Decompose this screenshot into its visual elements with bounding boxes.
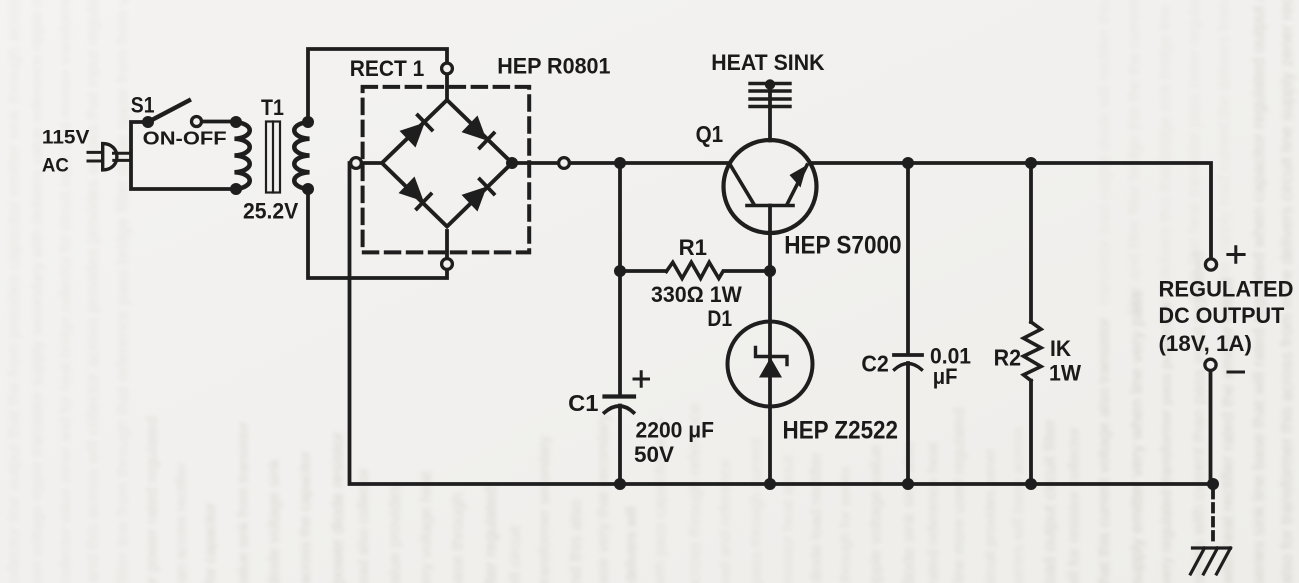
svg-text:C2: C2	[861, 350, 888, 376]
svg-text:330Ω 1W: 330Ω 1W	[651, 282, 742, 307]
svg-text:HEP R0801: HEP R0801	[497, 53, 610, 78]
svg-text:D1: D1	[707, 306, 732, 331]
svg-text:Q1: Q1	[696, 121, 724, 147]
svg-text:IK: IK	[1050, 336, 1071, 361]
svg-text:25.2V: 25.2V	[243, 199, 299, 224]
svg-text:50V: 50V	[634, 442, 674, 467]
svg-text:AC: AC	[42, 156, 69, 177]
svg-text:R1: R1	[679, 235, 707, 260]
svg-text:1W: 1W	[1049, 360, 1081, 385]
svg-text:(18V, 1A): (18V, 1A)	[1159, 331, 1252, 356]
svg-text:REGULATED: REGULATED	[1159, 277, 1294, 302]
svg-text:115V: 115V	[42, 128, 90, 149]
svg-text:DC OUTPUT: DC OUTPUT	[1159, 303, 1285, 328]
svg-text:μF: μF	[933, 364, 958, 389]
svg-text:HEAT SINK: HEAT SINK	[711, 50, 824, 75]
svg-text:C1: C1	[568, 390, 599, 416]
svg-text:HEP S7000: HEP S7000	[784, 231, 901, 259]
svg-text:ON-OFF: ON-OFF	[143, 129, 227, 149]
svg-text:2200 μF: 2200 μF	[636, 418, 715, 443]
svg-text:T1: T1	[261, 95, 284, 120]
svg-text:HEP Z2522: HEP Z2522	[783, 416, 899, 444]
svg-text:S1: S1	[131, 93, 155, 118]
svg-text:R2: R2	[994, 345, 1021, 371]
svg-text:RECT 1: RECT 1	[350, 56, 425, 81]
